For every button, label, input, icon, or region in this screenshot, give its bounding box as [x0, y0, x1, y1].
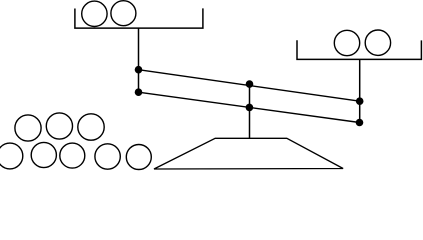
pile circle bottom row B1: [0, 143, 23, 169]
junction dot right top: [356, 97, 364, 105]
left pan: [75, 8, 203, 28]
right pan weight circle W4: [365, 30, 390, 55]
junction dot center bottom: [246, 104, 254, 112]
center post wire: [249, 84, 251, 138]
pile circle top row T1: [15, 115, 41, 141]
pile circle bottom row B2: [31, 142, 56, 167]
pile circle top row T3: [78, 114, 104, 140]
left pan hanger wire: [138, 28, 140, 92]
left pan weight circle W2: [111, 1, 136, 26]
junction dot center top: [246, 80, 254, 88]
fulcrum base trapezoid: [154, 138, 343, 169]
right pan: [297, 40, 421, 59]
pile circle top row T2: [46, 113, 72, 139]
left pan weight circle W1: [82, 1, 107, 26]
pile circle bottom row B3: [60, 143, 85, 168]
junction dot left bottom: [135, 88, 143, 96]
beam bottom edge wire: [139, 92, 360, 122]
right pan weight circle W3: [334, 30, 359, 55]
pile circle bottom row B4: [95, 144, 120, 169]
junction dot right bottom: [356, 119, 364, 127]
junction dot left top: [135, 66, 143, 74]
pile circle bottom row B5: [126, 145, 151, 170]
beam top edge wire: [139, 70, 360, 102]
right pan hanger wire: [359, 59, 361, 122]
